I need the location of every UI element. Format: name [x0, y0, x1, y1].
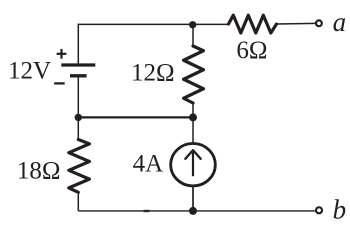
resistor 18ohm zigzag	[69, 140, 90, 193]
wire bottom horizontal	[78, 210, 315, 212]
polarity plus mark	[57, 49, 67, 59]
wire 12-ohm top stub	[192, 24, 194, 46]
wire bottom junction artifact	[144, 210, 150, 212]
wire current source bottom stub	[192, 185, 194, 211]
svg-text:4A: 4A	[133, 151, 164, 178]
junction dot middle right	[189, 113, 197, 121]
wire top left horizontal	[78, 24, 193, 63]
wire 12-ohm bottom stub	[192, 103, 194, 117]
current source arrow shaft	[192, 151, 194, 176]
resistor 6ohm zigzag	[229, 15, 277, 33]
wire current source top stub	[192, 117, 194, 144]
wire bottom left vertical	[77, 192, 79, 211]
voltage source V1 12V battery plates	[61, 65, 95, 76]
svg-text:18Ω: 18Ω	[17, 157, 61, 184]
terminal b circle	[316, 207, 322, 213]
svg-text:12Ω: 12Ω	[131, 60, 175, 87]
junction dot bottom	[189, 207, 197, 215]
svg-text:b: b	[333, 195, 347, 225]
svg-text:a: a	[333, 7, 347, 37]
wire top middle (junction to 6-ohm)	[193, 23, 229, 25]
junction dot top	[189, 21, 196, 28]
terminal a circle	[316, 20, 322, 26]
current source arrowhead	[185, 150, 200, 159]
junction dot middle left	[75, 114, 82, 121]
svg-text:12V: 12V	[8, 58, 51, 85]
wire top right (6-ohm to terminal a)	[277, 22, 316, 25]
wire left vertical below battery	[77, 77, 79, 139]
resistor 12ohm zigzag	[184, 46, 204, 103]
polarity minus mark	[54, 82, 64, 84]
current source 4A circle	[171, 144, 216, 186]
wire middle horizontal	[78, 116, 193, 118]
svg-text:6Ω: 6Ω	[236, 37, 267, 64]
